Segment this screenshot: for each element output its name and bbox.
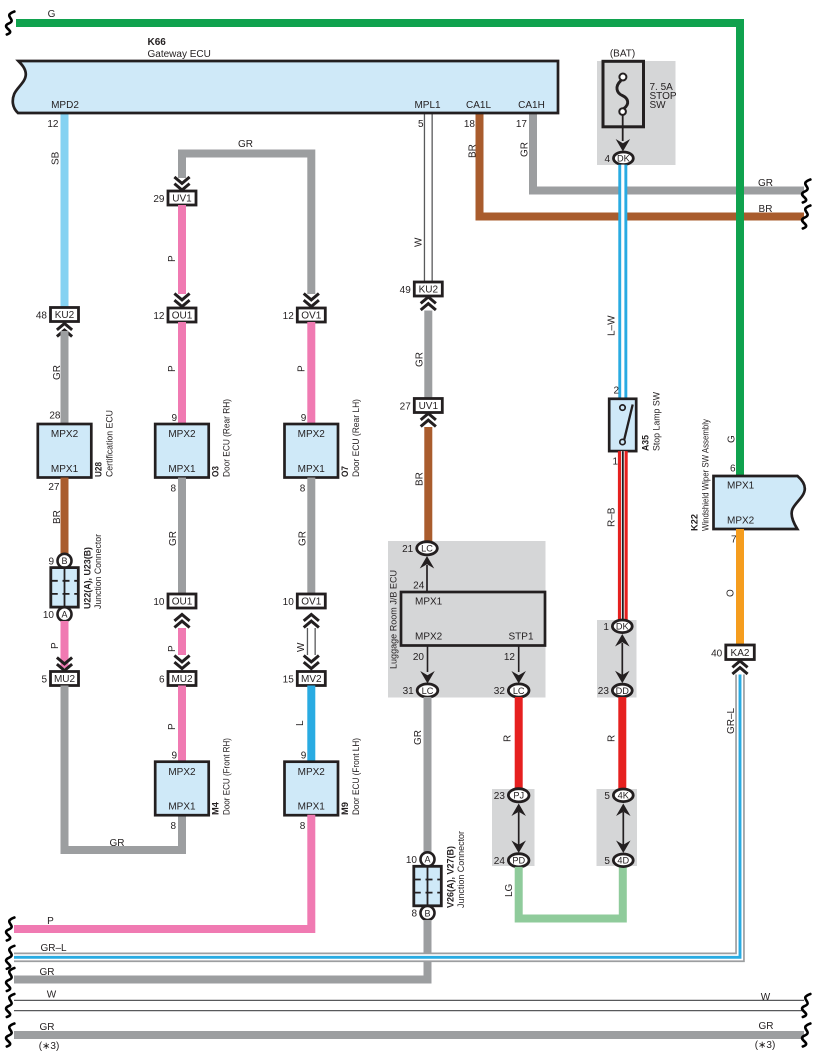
svg-text:MPX2: MPX2 xyxy=(168,767,196,778)
svg-text:Junction Connector: Junction Connector xyxy=(93,534,103,609)
svg-text:MV2: MV2 xyxy=(301,674,322,685)
svg-text:12: 12 xyxy=(283,311,295,322)
svg-text:29: 29 xyxy=(153,194,165,205)
svg-text:23: 23 xyxy=(494,791,506,802)
svg-text:LC: LC xyxy=(421,544,433,554)
svg-text:SB: SB xyxy=(51,151,62,165)
svg-text:CA1L: CA1L xyxy=(466,100,491,111)
svg-text:GR: GR xyxy=(40,1022,55,1033)
svg-text:MPX1: MPX1 xyxy=(168,802,196,813)
svg-text:Luggage Room J/B ECU: Luggage Room J/B ECU xyxy=(389,570,400,669)
svg-text:STP1: STP1 xyxy=(509,632,534,643)
svg-text:GR: GR xyxy=(758,178,773,189)
svg-text:G: G xyxy=(727,435,738,443)
svg-text:5: 5 xyxy=(604,791,610,802)
svg-text:Door ECU (Rear RH): Door ECU (Rear RH) xyxy=(222,399,232,477)
svg-text:DK: DK xyxy=(617,154,631,164)
svg-text:W: W xyxy=(47,990,57,1001)
svg-text:B: B xyxy=(424,908,430,918)
svg-text:L–W: L–W xyxy=(607,315,618,336)
svg-text:10: 10 xyxy=(153,597,165,608)
svg-text:R–B: R–B xyxy=(607,507,618,527)
svg-text:A: A xyxy=(424,855,430,865)
svg-text:8: 8 xyxy=(300,484,306,495)
svg-text:GR: GR xyxy=(40,967,55,978)
svg-text:GR: GR xyxy=(168,531,179,546)
svg-text:GR: GR xyxy=(520,142,531,157)
svg-text:MPX2: MPX2 xyxy=(415,632,443,643)
svg-text:4: 4 xyxy=(604,154,610,165)
svg-text:K22: K22 xyxy=(690,514,700,531)
svg-text:6: 6 xyxy=(159,674,165,685)
svg-text:MPD2: MPD2 xyxy=(51,100,79,111)
svg-text:1: 1 xyxy=(603,622,609,633)
svg-text:27: 27 xyxy=(400,401,412,412)
svg-text:P: P xyxy=(167,645,178,652)
svg-text:(∗3): (∗3) xyxy=(755,1040,776,1051)
svg-text:P: P xyxy=(167,255,178,262)
svg-text:P: P xyxy=(50,642,61,649)
svg-text:49: 49 xyxy=(400,285,412,296)
svg-text:W: W xyxy=(413,237,424,247)
svg-text:MPX1: MPX1 xyxy=(415,597,443,608)
svg-text:8: 8 xyxy=(300,821,306,832)
svg-text:1: 1 xyxy=(612,457,618,468)
svg-text:M9: M9 xyxy=(340,802,350,815)
svg-text:Junction Connector: Junction Connector xyxy=(456,831,466,908)
svg-text:9: 9 xyxy=(171,751,177,762)
svg-text:GR: GR xyxy=(238,139,253,150)
svg-text:BR: BR xyxy=(468,144,479,158)
svg-text:GR: GR xyxy=(413,730,424,745)
svg-text:V26(A), V27(B): V26(A), V27(B) xyxy=(446,846,456,908)
svg-text:28: 28 xyxy=(49,411,61,422)
svg-text:R: R xyxy=(503,735,514,742)
svg-text:12: 12 xyxy=(47,119,59,130)
svg-text:B: B xyxy=(61,556,67,566)
svg-text:Door ECU (Front LH): Door ECU (Front LH) xyxy=(351,738,361,815)
svg-text:21: 21 xyxy=(402,544,414,555)
svg-text:8: 8 xyxy=(411,909,417,920)
svg-text:GR: GR xyxy=(297,531,308,546)
svg-text:10: 10 xyxy=(283,597,295,608)
svg-text:(∗3): (∗3) xyxy=(39,1041,60,1052)
svg-text:MPX2: MPX2 xyxy=(168,429,196,440)
svg-text:MPX1: MPX1 xyxy=(298,464,326,475)
svg-text:23: 23 xyxy=(598,686,610,697)
svg-text:K66: K66 xyxy=(148,37,167,48)
svg-text:P: P xyxy=(167,365,178,372)
svg-text:SW: SW xyxy=(650,100,667,111)
svg-text:P: P xyxy=(297,365,308,372)
svg-text:MPX2: MPX2 xyxy=(298,767,326,778)
svg-text:DD: DD xyxy=(616,686,630,696)
svg-text:PJ: PJ xyxy=(513,791,524,801)
svg-text:10: 10 xyxy=(406,855,418,866)
svg-text:4K: 4K xyxy=(618,791,630,801)
svg-text:(BAT): (BAT) xyxy=(610,49,635,60)
svg-text:OU1: OU1 xyxy=(172,311,193,322)
svg-text:5: 5 xyxy=(41,674,47,685)
svg-text:5: 5 xyxy=(418,119,424,130)
svg-text:9: 9 xyxy=(301,413,307,424)
svg-text:20: 20 xyxy=(413,652,425,663)
svg-text:U28: U28 xyxy=(94,462,104,477)
svg-text:OV1: OV1 xyxy=(301,597,321,608)
svg-text:U22(A), U23(B): U22(A), U23(B) xyxy=(83,547,93,609)
svg-text:BR: BR xyxy=(414,472,425,486)
svg-text:O: O xyxy=(726,589,737,597)
svg-text:W: W xyxy=(296,642,307,652)
svg-text:12: 12 xyxy=(153,311,165,322)
svg-text:DK: DK xyxy=(616,622,630,632)
svg-text:48: 48 xyxy=(36,310,48,321)
svg-text:OU1: OU1 xyxy=(172,597,193,608)
svg-text:40: 40 xyxy=(711,648,723,659)
svg-text:Windshield Wiper SW Assembly: Windshield Wiper SW Assembly xyxy=(701,419,711,531)
svg-text:M4: M4 xyxy=(211,802,221,815)
svg-text:P: P xyxy=(47,916,54,927)
svg-text:BR: BR xyxy=(759,204,773,215)
svg-text:KU2: KU2 xyxy=(55,310,75,321)
svg-text:LG: LG xyxy=(504,883,515,897)
svg-text:GR: GR xyxy=(414,352,425,367)
svg-text:MU2: MU2 xyxy=(171,674,193,685)
svg-text:Stop Lamp SW: Stop Lamp SW xyxy=(652,392,662,451)
svg-text:GR–L: GR–L xyxy=(726,707,737,734)
svg-text:31: 31 xyxy=(403,686,415,697)
svg-text:KU2: KU2 xyxy=(419,285,439,296)
svg-text:MPL1: MPL1 xyxy=(414,100,441,111)
svg-text:5: 5 xyxy=(604,856,610,867)
svg-text:2: 2 xyxy=(613,386,619,397)
svg-text:12: 12 xyxy=(504,652,516,663)
svg-text:GR: GR xyxy=(52,365,63,380)
svg-text:GR: GR xyxy=(759,1021,774,1032)
svg-text:24: 24 xyxy=(494,856,506,867)
svg-text:32: 32 xyxy=(494,686,506,697)
svg-text:Door ECU (Rear LH): Door ECU (Rear LH) xyxy=(351,399,361,477)
svg-text:9: 9 xyxy=(301,751,307,762)
svg-text:10: 10 xyxy=(43,610,55,621)
svg-text:15: 15 xyxy=(283,674,295,685)
svg-text:MPX1: MPX1 xyxy=(298,802,326,813)
svg-text:8: 8 xyxy=(170,821,176,832)
svg-text:4D: 4D xyxy=(617,856,629,866)
svg-text:MU2: MU2 xyxy=(54,674,76,685)
svg-text:MPX2: MPX2 xyxy=(298,429,326,440)
svg-text:A: A xyxy=(61,610,67,620)
svg-text:18: 18 xyxy=(464,119,476,130)
svg-text:O7: O7 xyxy=(340,466,350,477)
svg-text:A35: A35 xyxy=(641,435,651,451)
svg-text:O3: O3 xyxy=(211,466,221,477)
svg-text:9: 9 xyxy=(48,556,54,567)
svg-text:R: R xyxy=(607,735,618,742)
svg-text:GR: GR xyxy=(110,838,125,849)
svg-text:UV1: UV1 xyxy=(419,401,439,412)
svg-text:8: 8 xyxy=(170,484,176,495)
svg-text:24: 24 xyxy=(413,581,425,592)
svg-text:KA2: KA2 xyxy=(731,648,750,659)
svg-text:Door ECU (Front RH): Door ECU (Front RH) xyxy=(222,738,232,815)
svg-text:MPX1: MPX1 xyxy=(727,481,755,492)
svg-text:MPX1: MPX1 xyxy=(168,464,196,475)
svg-text:OV1: OV1 xyxy=(301,311,321,322)
svg-text:W: W xyxy=(761,992,771,1003)
svg-text:Gateway ECU: Gateway ECU xyxy=(148,49,211,60)
svg-text:CA1H: CA1H xyxy=(518,100,545,111)
svg-text:27: 27 xyxy=(48,482,60,493)
svg-text:MPX2: MPX2 xyxy=(727,515,755,526)
svg-text:BR: BR xyxy=(52,510,63,524)
svg-text:UV1: UV1 xyxy=(172,194,192,205)
svg-text:9: 9 xyxy=(171,413,177,424)
svg-text:6: 6 xyxy=(730,464,736,475)
svg-text:GR–L: GR–L xyxy=(40,943,67,954)
svg-text:LC: LC xyxy=(513,686,525,696)
svg-text:17: 17 xyxy=(516,119,528,130)
svg-text:Certification ECU: Certification ECU xyxy=(105,410,115,477)
svg-text:PD: PD xyxy=(512,856,525,866)
svg-text:MPX1: MPX1 xyxy=(51,464,79,475)
svg-text:LC: LC xyxy=(422,686,434,696)
svg-text:MPX2: MPX2 xyxy=(51,429,79,440)
svg-text:L: L xyxy=(295,720,306,726)
svg-text:P: P xyxy=(167,723,178,730)
svg-text:G: G xyxy=(48,9,56,20)
